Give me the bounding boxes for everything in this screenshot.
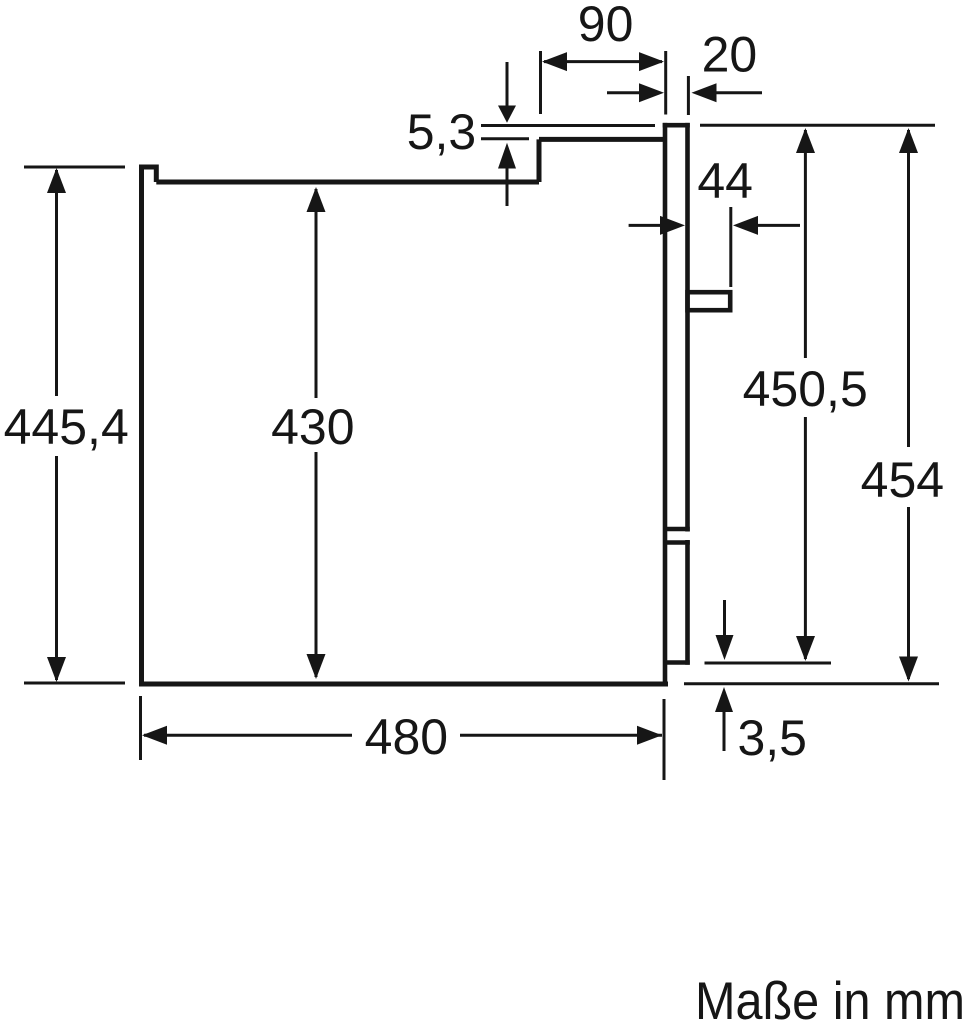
dim 445,4 bottom extension line (24, 682, 125, 685)
dim 90 line (544, 60, 662, 63)
dim 44 arrow pointing left (733, 216, 758, 235)
outline left wall (139, 165, 144, 687)
outline bottom (139, 682, 668, 687)
svg-text:430: 430 (271, 399, 354, 455)
svg-text:90: 90 (578, 0, 634, 52)
dim 90 arrow left (542, 52, 567, 71)
door right edge lower (685, 540, 690, 665)
svg-text:Maße in mm: Maße in mm (695, 972, 965, 1024)
dim 5,3 upper ref line (481, 124, 655, 127)
dim 454 line upper segment (907, 130, 910, 447)
handle (688, 292, 731, 310)
dim 445,4 line upper segment (55, 170, 58, 396)
dim 450,5 line upper segment (804, 130, 807, 358)
dim 5,3 arrow up (498, 143, 516, 169)
outline oven top (539, 137, 667, 142)
dim 44 extension line (729, 207, 732, 287)
dim 3,5 arrow up (715, 687, 733, 712)
dim 454 arrow down (899, 657, 918, 682)
dim 20 right extension line (687, 76, 690, 115)
dim 430 arrow up (307, 187, 326, 212)
dim 445,4 top extension line (24, 166, 125, 169)
door right edge upper (685, 123, 690, 532)
svg-text:445,4: 445,4 (4, 399, 129, 455)
dim 5,3 lower ref line (481, 137, 529, 140)
dim 44 right arrow stem (756, 224, 800, 227)
dim 430 line upper segment (315, 189, 318, 398)
dim 3,5 lower arrow stem (723, 710, 726, 751)
dim 20 left arrow stem (607, 91, 640, 94)
dim 480 right extension line (663, 699, 666, 780)
dim 480 line right segment (460, 734, 662, 737)
dim 480 arrow left (142, 726, 167, 745)
dim 445,4 arrow up (47, 168, 66, 193)
dim 90 arrow right (639, 52, 664, 71)
dim 44 arrow pointing right (660, 216, 685, 235)
svg-text:3,5: 3,5 (737, 710, 807, 766)
dim 20 right arrow stem (715, 91, 762, 94)
door joint upper cap (663, 527, 690, 532)
svg-text:5,3: 5,3 (407, 104, 477, 160)
dim 445,4 arrow down (47, 657, 66, 682)
dim 5,3 arrow down (498, 106, 516, 123)
dim 3,5 upper arrow stem (723, 600, 726, 637)
dim 480 arrow right (637, 726, 662, 745)
dim 20 arrow pointing left (692, 83, 717, 102)
outline top-left notch (139, 167, 156, 182)
dim 3,5 arrow down (716, 635, 734, 660)
svg-text:20: 20 (702, 27, 758, 83)
svg-text:450,5: 450,5 (743, 361, 868, 417)
outline step vertical (537, 139, 542, 182)
dim 450,5 arrow down (796, 636, 815, 661)
dim 90 left extension line (539, 51, 542, 114)
dim 3,5 lower ref line (684, 682, 939, 685)
door joint lower cap (663, 540, 690, 545)
dim 450,5 arrow up (796, 128, 815, 153)
dim 445,4 line lower segment (55, 456, 58, 680)
dim 480 left extension line (139, 696, 142, 760)
dim 44 left arrow stem (629, 224, 661, 227)
dim 454 arrow up (899, 128, 918, 153)
dim 20 arrow pointing right (639, 83, 664, 102)
dim 430 arrow down (307, 654, 326, 679)
dim 480 line left segment (144, 734, 352, 737)
dim 430 line lower segment (315, 452, 318, 677)
dim 450,5 line lower segment (804, 417, 807, 659)
svg-text:44: 44 (697, 153, 753, 209)
door top cap (663, 123, 690, 128)
door left edge (663, 123, 668, 686)
outline worktop top (156, 180, 539, 185)
dim 5,3 lower arrow stem (506, 167, 509, 206)
svg-text:480: 480 (365, 709, 448, 765)
dim 5,3 upper arrow stem (506, 62, 509, 107)
top right ref line (700, 124, 935, 127)
svg-text:454: 454 (861, 452, 944, 508)
dim 454 line lower segment (907, 507, 910, 679)
door bottom cap (663, 660, 690, 665)
dim 90 right extension line (664, 51, 667, 115)
dim 3,5 upper ref line (705, 662, 832, 665)
